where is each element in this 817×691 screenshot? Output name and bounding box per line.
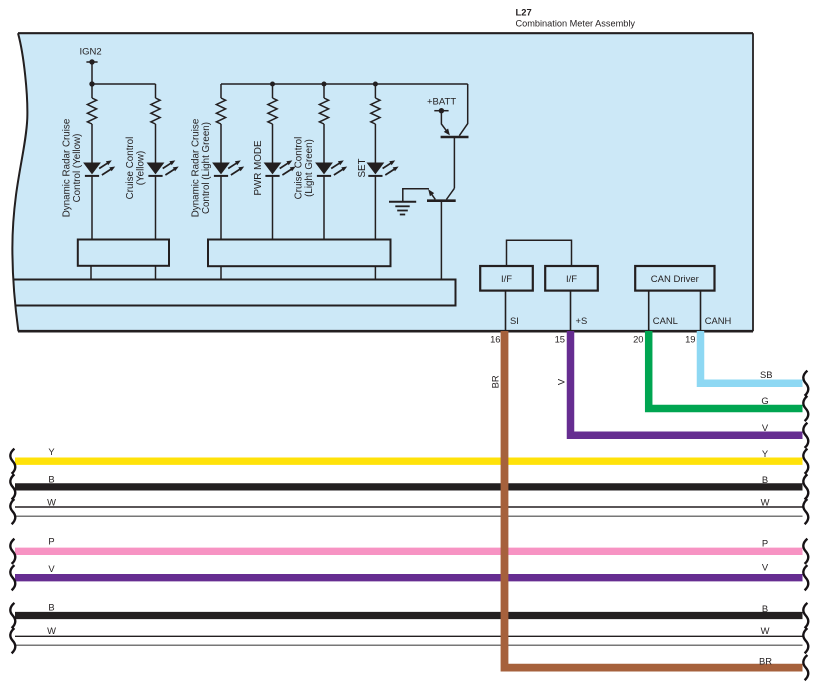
wire LED4 to box2 <box>272 177 274 241</box>
wire Q2 emitter to ground <box>403 189 429 201</box>
LED D5 <box>315 160 347 177</box>
squiggle right B <box>803 474 808 499</box>
LED D4 <box>264 160 296 177</box>
svg-text:I/F: I/F <box>566 274 577 285</box>
resistor R1 <box>87 98 96 124</box>
wire Q2 base down to bus bar <box>440 201 442 280</box>
svg-text:B: B <box>762 474 768 485</box>
branch wire 4 <box>272 84 274 98</box>
lead CANH <box>700 291 702 330</box>
resistor R4 <box>268 98 277 124</box>
transistor Q1 collector wire <box>459 84 467 136</box>
svg-text:V: V <box>762 422 769 433</box>
wire BR (SI) crosses on top <box>505 331 803 668</box>
svg-text:19: 19 <box>685 334 695 345</box>
bracket over I/F blocks <box>507 240 572 266</box>
svg-text:CANL: CANL <box>653 315 678 326</box>
svg-text:PWR MODE: PWR MODE <box>253 140 264 195</box>
wire W (outline) <box>15 506 803 508</box>
wire W2 (outline) <box>15 635 803 637</box>
block I/F 1 <box>480 266 533 291</box>
wire LED3 to box2 <box>220 177 222 241</box>
squiggle right G <box>803 396 808 421</box>
transistor Q2 emitter wire <box>431 193 435 199</box>
junction dot rail2 c <box>373 82 378 87</box>
svg-text:CANH: CANH <box>705 315 732 326</box>
svg-text:B: B <box>762 603 768 614</box>
wire LED2 to box1 <box>155 177 157 241</box>
svg-text:CAN Driver: CAN Driver <box>651 274 699 285</box>
wire R1 to LED1 <box>91 124 93 163</box>
svg-text:W: W <box>761 625 770 636</box>
box top edge <box>18 32 753 34</box>
squiggle right V2 <box>803 565 808 590</box>
lead CANL <box>648 291 650 330</box>
stub box2 right <box>374 266 376 279</box>
squiggle right BR <box>803 655 808 680</box>
svg-text:V: V <box>48 563 55 574</box>
svg-text:BR: BR <box>490 375 501 388</box>
squiggle left B <box>10 474 15 499</box>
box right edge <box>752 33 754 331</box>
wire P <box>15 548 803 555</box>
squiggle left B2 <box>10 603 15 628</box>
transistor Q1 base bar <box>441 136 469 139</box>
svg-text:SB: SB <box>760 369 773 380</box>
wire R4 to LED4 <box>272 124 274 163</box>
wire G (CANL) <box>649 331 803 409</box>
wire SB (CANH) <box>701 331 803 383</box>
branch wire 1 <box>91 84 93 98</box>
svg-text:P: P <box>48 536 54 547</box>
ground <box>389 201 416 203</box>
svg-text:SI: SI <box>510 315 519 326</box>
resistor R3 <box>216 98 225 124</box>
squiggle left P <box>10 539 15 564</box>
branch wire 5 <box>323 84 325 98</box>
squiggle left W <box>10 499 15 524</box>
transistor Q2 collector wire <box>446 188 454 199</box>
LED D6 <box>367 160 399 177</box>
branch wire 3 <box>220 84 222 98</box>
squiggle right SB <box>803 371 808 396</box>
squiggle right V <box>803 423 808 448</box>
svg-text:V: V <box>762 562 769 573</box>
svg-text:+BATT: +BATT <box>427 97 456 108</box>
connector box 2 <box>208 240 391 267</box>
svg-text:Y: Y <box>762 448 769 459</box>
wire Q1 to Q2 <box>453 137 455 188</box>
transistor Q1 emitter wire <box>441 111 447 132</box>
svg-text:L27: L27 <box>516 6 532 17</box>
block I/F 2 <box>545 266 598 291</box>
wire rail2 <box>221 83 468 85</box>
wire IGN2 down <box>91 62 93 84</box>
svg-text:W: W <box>47 496 56 507</box>
stub box1 right <box>155 266 157 279</box>
LED D2 <box>147 160 179 177</box>
wire LED6 to box2 <box>374 177 376 241</box>
svg-text:Cruise Control(Light Green): Cruise Control(Light Green) <box>294 137 315 200</box>
resistor R6 <box>371 98 380 124</box>
squiggle right Y <box>803 449 808 474</box>
squiggle right B2 <box>803 603 808 628</box>
transistor Q2 emitter arrow <box>428 189 434 196</box>
combination meter assembly box (torn left edge) <box>12 33 753 331</box>
svg-text:20: 20 <box>633 334 643 345</box>
squiggle left W2 <box>10 628 15 653</box>
wire R5 to LED5 <box>323 124 325 163</box>
wire V2 <box>15 574 803 581</box>
svg-text:16: 16 <box>490 334 500 345</box>
wire V (+S) <box>571 331 803 435</box>
wire rail1 <box>92 83 156 85</box>
branch wire 6 <box>374 84 376 98</box>
svg-text:Combination Meter Assembly: Combination Meter Assembly <box>516 18 636 28</box>
svg-text:+S: +S <box>576 315 588 326</box>
resistor R5 <box>319 98 328 124</box>
svg-text:Y: Y <box>48 446 55 457</box>
squiggle left V <box>10 565 15 590</box>
svg-text:V: V <box>555 378 566 385</box>
svg-text:15: 15 <box>555 334 565 345</box>
svg-text:IGN2: IGN2 <box>80 47 102 58</box>
wire R2 to LED2 <box>155 124 157 163</box>
wire R6 to LED6 <box>374 124 376 163</box>
box bottom edge <box>18 330 753 333</box>
wire R3 to LED3 <box>220 124 222 163</box>
svg-text:Dynamic Radar CruiseControl (L: Dynamic Radar CruiseControl (Light Green… <box>191 118 212 217</box>
transistor Q2 base bar <box>427 199 456 202</box>
squiggle right P <box>803 539 808 564</box>
svg-text:B: B <box>48 474 54 485</box>
svg-text:W: W <box>47 625 56 636</box>
svg-text:SET: SET <box>357 158 368 177</box>
svg-text:I/F: I/F <box>501 274 512 285</box>
junction dot rail2 b <box>322 82 327 87</box>
box torn left edge <box>12 33 27 331</box>
squiggle right W2 <box>803 628 808 653</box>
lead +S <box>570 291 572 330</box>
junction dot rail2 a <box>270 82 275 87</box>
svg-text:G: G <box>761 395 768 406</box>
branch wire 2 <box>155 84 157 98</box>
svg-text:B: B <box>48 602 54 613</box>
wire LED5 to box2 <box>323 177 325 241</box>
svg-text:P: P <box>762 538 768 549</box>
resistor R2 <box>151 98 160 124</box>
LED D1 <box>83 160 115 177</box>
wire LED1 to box1 <box>91 177 93 241</box>
connector box 1 <box>78 240 169 266</box>
stub box2 left <box>220 266 222 279</box>
svg-text:W: W <box>761 496 770 507</box>
svg-text:BR: BR <box>759 656 772 667</box>
LED D3 <box>212 160 244 177</box>
wire Y <box>15 458 803 465</box>
stub box1 left <box>90 266 92 279</box>
bus bar (long rectangle) <box>13 280 456 306</box>
transistor Q1 emitter arrow <box>444 129 450 136</box>
squiggle right W <box>803 499 808 524</box>
block CAN Driver <box>635 266 714 291</box>
junction dot rail1 <box>89 81 94 86</box>
lead SI <box>505 291 507 330</box>
wire B2 <box>15 612 803 619</box>
wire B <box>15 483 803 490</box>
squiggle left Y <box>10 449 15 474</box>
